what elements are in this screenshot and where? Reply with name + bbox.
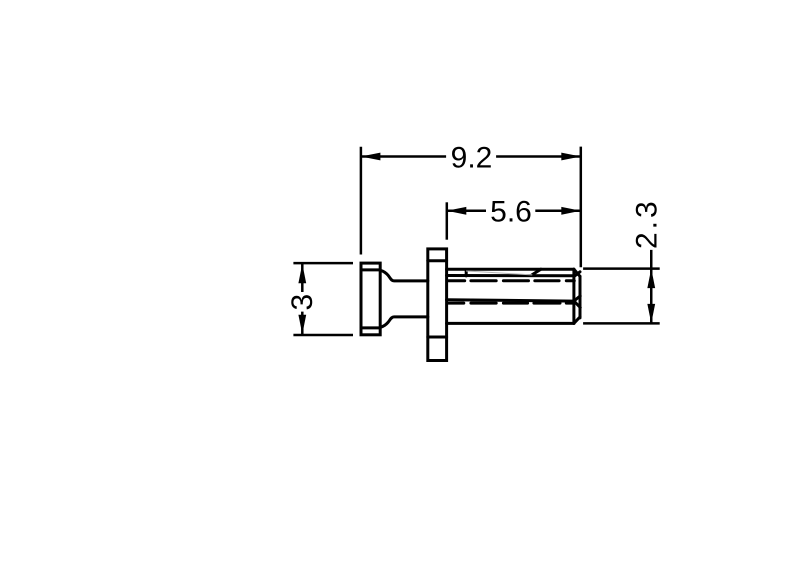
dimension line 3 xyxy=(301,263,304,335)
svg-text:3: 3 xyxy=(286,294,319,311)
tip face xyxy=(579,276,582,318)
arrowhead 2.3 up xyxy=(647,269,655,289)
arrowhead 2.3 down xyxy=(647,304,655,324)
arrowhead 3 up xyxy=(298,264,306,284)
head chamfer line top xyxy=(361,268,380,271)
neck fillet top xyxy=(380,270,428,281)
thread runout slant xyxy=(532,269,541,275)
hidden bore line bottom xyxy=(449,302,574,305)
arrowhead 9.2 right xyxy=(561,153,581,161)
shaft crest top xyxy=(447,268,574,271)
extension line 9.2 left xyxy=(360,147,363,255)
head outline xyxy=(361,263,380,335)
tip thread vee mid xyxy=(574,296,580,308)
svg-text:2.3: 2.3 xyxy=(631,198,664,249)
shaft thread root top xyxy=(447,274,574,277)
shaft crest bottom xyxy=(447,322,574,325)
extension line 2.3 top xyxy=(583,267,660,270)
dimension line 2.3 xyxy=(650,250,653,324)
extension line 5.6 left xyxy=(446,202,449,239)
dimension line 9.2 xyxy=(361,155,581,158)
arrowhead 5.6 left xyxy=(447,207,467,215)
head chamfer line bottom xyxy=(361,326,380,329)
collar chamfer line bottom xyxy=(428,336,447,339)
extension line 2.3 bottom xyxy=(583,322,660,325)
arrowhead 3 down xyxy=(298,315,306,335)
extension line 3 bottom xyxy=(293,334,353,337)
dimension line 5.6 xyxy=(447,210,581,213)
arrowhead 5.6 right xyxy=(561,207,581,215)
tip thread vee top xyxy=(574,272,580,277)
collar outline xyxy=(428,249,447,361)
svg-text:9.2: 9.2 xyxy=(451,141,493,174)
tip chamfer bottom xyxy=(574,317,580,324)
hidden bore line top xyxy=(449,279,575,282)
thread runout tick xyxy=(465,270,468,276)
tip chamfer top xyxy=(574,269,580,276)
neck fillet bottom xyxy=(380,317,428,327)
extension line 3 top xyxy=(293,262,353,265)
arrowhead 9.2 left xyxy=(361,153,381,161)
shaft mid line xyxy=(447,300,574,301)
thread helix faint line xyxy=(466,271,532,275)
tip chamfer base edge xyxy=(572,269,575,323)
extension line right shared xyxy=(580,147,583,268)
collar chamfer line top xyxy=(428,259,447,262)
svg-text:5.6: 5.6 xyxy=(490,196,532,229)
